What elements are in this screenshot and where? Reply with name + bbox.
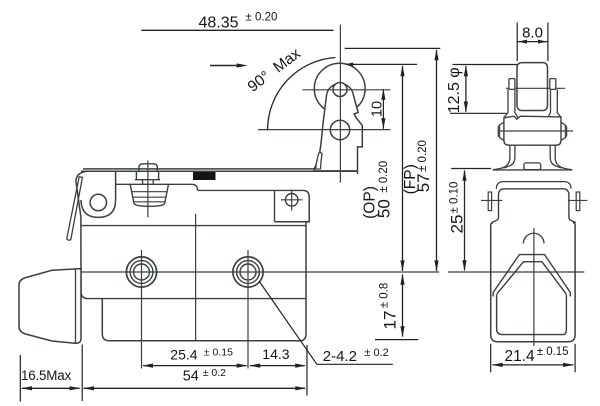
svg-text:48.35: 48.35 <box>199 15 239 32</box>
svg-text:± 0.15: ± 0.15 <box>537 346 569 358</box>
svg-text:8.0: 8.0 <box>522 24 543 41</box>
svg-text:12.5 φ: 12.5 φ <box>446 67 463 113</box>
svg-text:50: 50 <box>374 199 393 218</box>
svg-text:± 0.2: ± 0.2 <box>203 367 226 379</box>
svg-text:25.4: 25.4 <box>170 346 197 362</box>
svg-text:± 0.20: ± 0.20 <box>378 161 390 193</box>
svg-text:25: 25 <box>448 215 467 234</box>
svg-text:± 0.2: ± 0.2 <box>364 347 388 359</box>
svg-text:± 0.20: ± 0.20 <box>246 12 278 24</box>
svg-text:± 0.8: ± 0.8 <box>378 283 390 309</box>
svg-text:21.4: 21.4 <box>505 348 536 365</box>
svg-text:± 0.15: ± 0.15 <box>204 346 233 358</box>
svg-text:± 0.20: ± 0.20 <box>417 140 429 172</box>
svg-text:± 0.10: ± 0.10 <box>448 182 460 214</box>
svg-text:54: 54 <box>183 369 199 385</box>
svg-text:17: 17 <box>381 311 400 330</box>
svg-text:14.3: 14.3 <box>262 346 289 362</box>
svg-text:2-4.2: 2-4.2 <box>323 348 357 365</box>
svg-text:10: 10 <box>370 101 386 117</box>
svg-text:57: 57 <box>414 173 433 192</box>
svg-text:16.5Max: 16.5Max <box>21 368 71 383</box>
